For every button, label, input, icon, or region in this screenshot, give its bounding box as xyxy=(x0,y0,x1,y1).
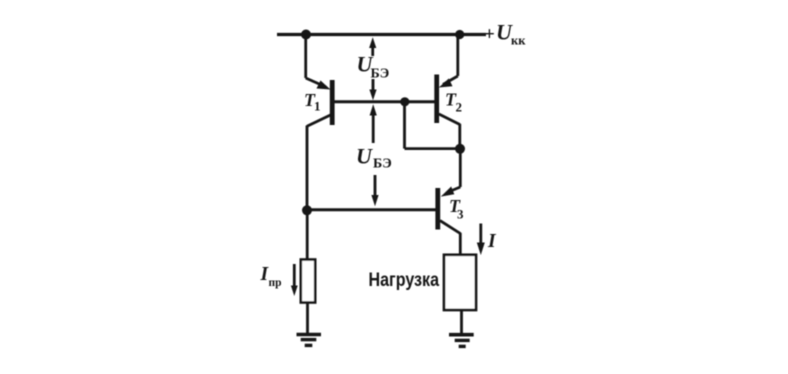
wire T2 emitter vertical xyxy=(456,35,459,77)
node dot T2 collector / T3 xyxy=(455,144,465,154)
wire T3 collector down to load xyxy=(459,233,462,255)
transistor T3 collector diagonal xyxy=(440,221,460,234)
wire T1 emitter diagonal xyxy=(306,78,326,87)
wire T1 emitter vertical xyxy=(304,35,307,79)
wire T1 collector down to node xyxy=(306,126,309,212)
arrow Iпр current (down) xyxy=(293,264,296,287)
wire node down to T3 emitter xyxy=(459,149,462,187)
svg-text:БЭ: БЭ xyxy=(371,67,390,82)
wire T2 collector down to node xyxy=(458,124,461,149)
node dot on base line xyxy=(400,97,409,106)
svg-text:кк: кк xyxy=(511,34,526,48)
label I_пр xyxy=(260,264,282,289)
arrow Ube-upper up (to rail) xyxy=(371,44,374,56)
transistor T3 base bar xyxy=(435,188,440,230)
label T1 xyxy=(304,90,321,114)
svg-text:2: 2 xyxy=(456,100,463,115)
wire horizontal to collector node xyxy=(405,147,461,150)
resistor Iпр (vertical box) xyxy=(301,260,315,303)
wire T2 emitter diagonal xyxy=(443,76,458,85)
ground left xyxy=(297,333,322,337)
svg-text:БЭ: БЭ xyxy=(373,157,392,172)
arrow Ube-lower down (to T3 base line) xyxy=(374,175,377,197)
wire T3 emitter diagonal xyxy=(447,187,460,193)
arrow I load current (down) xyxy=(479,224,482,245)
arrow Ube-upper down (to base line) xyxy=(372,79,375,92)
transistor T2 emitter arrow xyxy=(439,79,453,88)
label U_БЭ upper xyxy=(357,52,390,82)
svg-text:3: 3 xyxy=(457,207,464,222)
node junction dot right on rail xyxy=(455,30,464,39)
label T3 xyxy=(449,196,464,222)
label +Uкк xyxy=(484,20,526,48)
wire load to ground xyxy=(460,310,463,334)
svg-text:пр: пр xyxy=(269,277,282,289)
arrow Ube-lower up (to base line) xyxy=(372,112,375,143)
transistor T2 collector diagonal xyxy=(439,114,460,125)
transistor T1 emitter arrow xyxy=(317,81,331,90)
label T2 xyxy=(445,90,462,115)
load box Нагрузка xyxy=(444,255,476,310)
wire top supply rail xyxy=(277,33,486,36)
transistor T1 collector diagonal xyxy=(307,115,332,127)
wire resistor to ground xyxy=(306,303,309,335)
svg-text:Нагрузка: Нагрузка xyxy=(369,269,440,291)
wire T3 base line to left node xyxy=(306,208,436,211)
svg-text:U: U xyxy=(356,144,373,169)
ground right xyxy=(449,333,474,337)
svg-text:1: 1 xyxy=(314,99,321,114)
wire down to resistor xyxy=(306,210,309,260)
wire base down from dot xyxy=(403,102,406,149)
svg-text:I: I xyxy=(487,231,497,252)
transistor T1 base bar xyxy=(330,80,335,125)
label I xyxy=(487,231,497,252)
node dot left (T1 collector / T3 base) xyxy=(302,205,312,215)
node junction dot left on rail xyxy=(301,30,311,40)
wire base line T1-T2 xyxy=(334,100,435,103)
label Нагрузка xyxy=(369,269,440,291)
svg-text:+: + xyxy=(484,24,495,45)
label U_БЭ lower xyxy=(356,144,392,172)
transistor T3 emitter arrow xyxy=(441,187,455,197)
transistor T2 base bar xyxy=(434,75,439,124)
